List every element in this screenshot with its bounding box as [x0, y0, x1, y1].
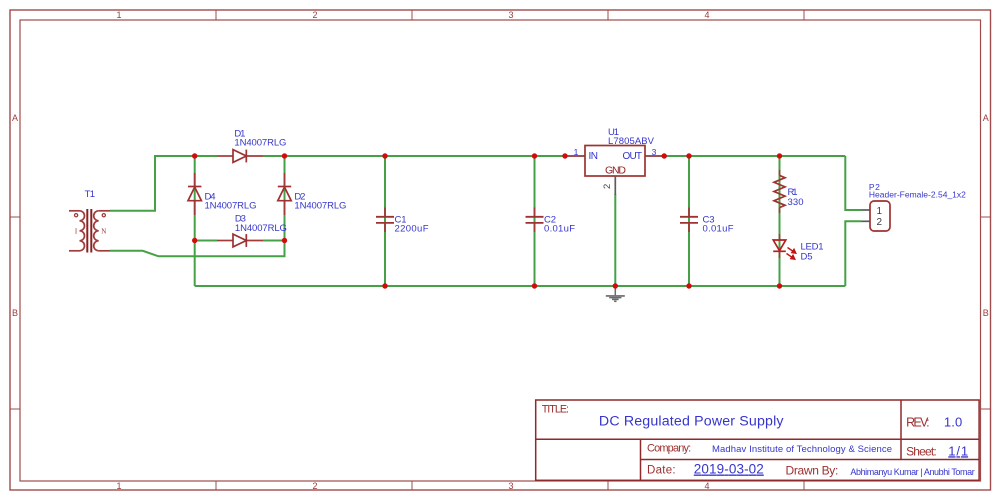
junction C3 bottom — [686, 283, 691, 288]
diode D1 — [217, 150, 263, 163]
wire: bridge bottom rail right segment — [263, 240, 285, 242]
junction top-left bridge — [192, 153, 197, 158]
capacitor C1 — [376, 208, 394, 233]
svg-text:1N4007RLG: 1N4007RLG — [205, 201, 257, 212]
junction LED bottom — [777, 283, 782, 288]
svg-text:Madhav Institute of Technology: Madhav Institute of Technology & Science — [712, 444, 892, 455]
svg-text:1.0: 1.0 — [944, 415, 962, 430]
svg-text:Drawn By:: Drawn By: — [786, 464, 839, 478]
wire: U1 ground pin to rail — [614, 194, 616, 286]
wire: output to P2 pin 1 — [845, 156, 861, 210]
transformer T1 — [69, 209, 110, 253]
ground symbol — [606, 287, 625, 301]
svg-text:D5: D5 — [801, 252, 813, 263]
wire: bridge bottom rail left segment — [195, 240, 217, 242]
svg-text:330: 330 — [788, 197, 804, 208]
diode D2 — [278, 173, 291, 215]
junction C2 bottom — [532, 283, 537, 288]
svg-text:B: B — [12, 308, 18, 318]
junction top-right bridge — [282, 153, 287, 158]
connector P2 — [861, 201, 890, 231]
junction C2 top — [532, 153, 537, 158]
junction C1 bottom — [382, 283, 387, 288]
junction bridge bottom right — [282, 238, 287, 243]
U1 pin 3 — [645, 155, 664, 157]
svg-text:1N4007RLG: 1N4007RLG — [235, 223, 287, 234]
U1 pin 1 — [565, 155, 585, 157]
svg-text:4: 4 — [704, 481, 709, 491]
wire: C2 branch — [534, 156, 536, 286]
svg-text:2: 2 — [312, 481, 317, 491]
svg-text:2200uF: 2200uF — [395, 224, 429, 235]
svg-text:3: 3 — [508, 481, 513, 491]
wire: ground to P2 pin 2 — [845, 221, 861, 286]
svg-text:GND: GND — [605, 165, 626, 177]
svg-text:Company:: Company: — [647, 443, 691, 455]
wire: U1 output rail — [664, 155, 845, 157]
junction R1 top — [777, 153, 782, 158]
svg-text:DC Regulated Power Supply: DC Regulated Power Supply — [599, 414, 785, 430]
U1 pin 2 (GND) — [614, 176, 616, 195]
wire: bottom ground rail — [195, 285, 846, 287]
wire: D4 branch vertical — [194, 156, 196, 241]
LED emission arrows — [787, 248, 796, 260]
svg-text:A: A — [983, 113, 989, 123]
wire: C1 branch — [384, 156, 386, 286]
junction bridge bottom left — [192, 238, 197, 243]
svg-text:1N4007RLG: 1N4007RLG — [294, 201, 346, 212]
junction U1 input wire end — [562, 153, 567, 158]
wire: top rail from D1 cathode to U1 input — [263, 155, 565, 157]
svg-text:1: 1 — [574, 147, 579, 157]
title block — [536, 400, 979, 480]
svg-text:1: 1 — [116, 481, 121, 491]
svg-text:4: 4 — [704, 10, 709, 20]
svg-text:Abhimanyu Kumar | Anubhi Tomar: Abhimanyu Kumar | Anubhi Tomar — [850, 467, 974, 477]
wire: C3 branch — [688, 156, 690, 286]
diode D3 — [217, 234, 263, 247]
svg-text:1N4007RLG: 1N4007RLG — [234, 138, 286, 149]
svg-text:Header-Female-2.54_1x2: Header-Female-2.54_1x2 — [869, 189, 966, 199]
svg-text:2: 2 — [312, 10, 317, 20]
capacitor C2 — [526, 208, 544, 233]
junction ground node — [613, 283, 618, 288]
svg-text:IN: IN — [589, 151, 599, 162]
svg-text:0.01uF: 0.01uF — [703, 224, 734, 235]
wire: R1 LED branch — [779, 156, 781, 286]
svg-text:2019-03-02: 2019-03-02 — [694, 462, 764, 477]
svg-text:A: A — [12, 113, 18, 123]
svg-text:2: 2 — [602, 184, 613, 189]
svg-text:1/1: 1/1 — [948, 443, 968, 458]
svg-text:Date:: Date: — [647, 465, 676, 477]
wire: transformer secondary top to rectifier top rail — [110, 156, 195, 211]
wire: negative rail down from bridge — [194, 241, 196, 287]
junction C3 top — [686, 153, 691, 158]
svg-text:3: 3 — [652, 147, 657, 157]
svg-text:1: 1 — [116, 10, 121, 20]
junction C1 top — [382, 153, 387, 158]
svg-text:REV:: REV: — [906, 416, 930, 430]
svg-text:Sheet:: Sheet: — [906, 445, 937, 459]
svg-text:L7805ABV: L7805ABV — [608, 136, 655, 147]
svg-text:B: B — [983, 308, 989, 318]
svg-text:OUT: OUT — [623, 151, 643, 162]
diode D4 — [188, 173, 201, 215]
svg-text:1: 1 — [877, 206, 883, 217]
wire: top rail D1 anode side — [195, 155, 217, 157]
svg-text:N: N — [101, 228, 106, 236]
op-amp U1 regulator box — [585, 146, 645, 177]
capacitor C3 — [680, 208, 698, 233]
wire: transformer secondary bottom to bridge AC node — [110, 241, 285, 257]
svg-text:2: 2 — [877, 217, 883, 228]
svg-text:0.01uF: 0.01uF — [544, 224, 575, 235]
LED D5 — [773, 234, 786, 258]
svg-text:TITLE:: TITLE: — [542, 404, 569, 416]
wire: D2 branch vertical — [284, 156, 286, 241]
junction U1 output wire end — [662, 153, 667, 158]
resistor R1 — [774, 170, 785, 213]
svg-text:T1: T1 — [85, 189, 96, 200]
svg-text:3: 3 — [508, 10, 513, 20]
